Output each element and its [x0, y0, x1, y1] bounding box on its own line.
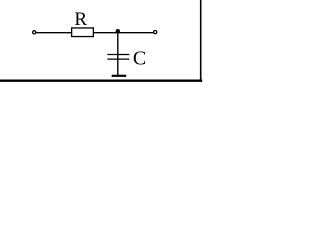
svg-text:R: R: [74, 9, 87, 30]
capacitor C bottom plate: [107, 58, 129, 60]
resistor R: [72, 28, 94, 37]
input terminal node: [33, 31, 36, 34]
svg-text:C: C: [133, 48, 146, 70]
ground: [112, 75, 127, 77]
output terminal node: [154, 30, 157, 33]
capacitor C top plate: [107, 54, 129, 56]
junction node: [116, 29, 120, 33]
wire input terminal to resistor: [36, 32, 71, 34]
wire junction down through capacitor to ground: [117, 32, 119, 76]
wire resistor to output terminal: [94, 32, 154, 34]
